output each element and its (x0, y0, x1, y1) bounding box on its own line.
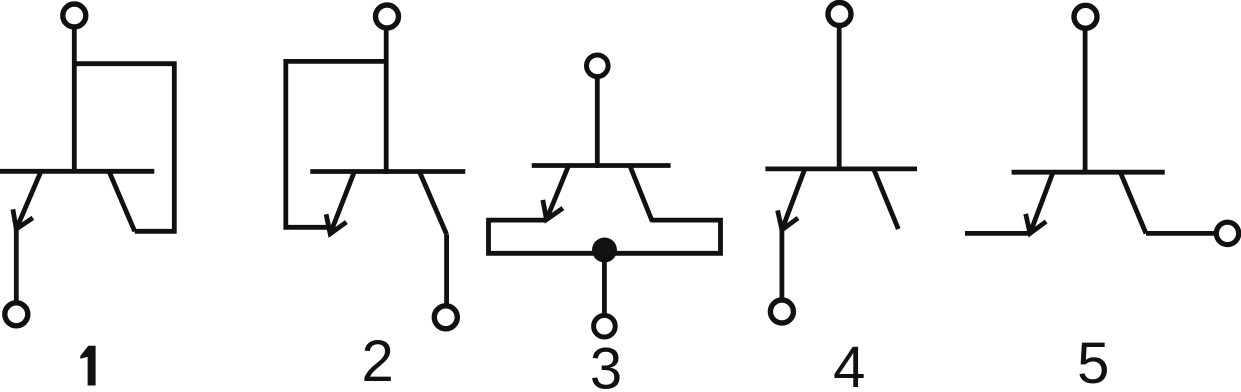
base bar Q1 (0, 169, 154, 174)
svg-text:5: 5 (1077, 331, 1109, 392)
wire, fig1 vertical from top terminal to base (72, 27, 77, 173)
emitter Q4 diagonal (782, 169, 805, 230)
emitter Q2 diagonal (330, 172, 354, 234)
terminal circle, fig1 emitter bottom (5, 303, 28, 326)
terminal circle, fig5 base top (1074, 5, 1097, 28)
emitter Q5 diagonal (1030, 172, 1053, 233)
terminal circle, fig4 base top (828, 3, 851, 26)
wire, fig3 emitter-collector shorting strap (489, 220, 721, 253)
terminal circle, fig4 emitter bottom (770, 300, 793, 323)
terminal circle, fig2 base top (376, 5, 399, 28)
emitter arrowhead Q1 (13, 209, 33, 229)
emitter arrowhead Q5 (1026, 214, 1046, 234)
terminal circle, fig3 base top (587, 55, 609, 77)
svg-text:2: 2 (361, 329, 393, 392)
collector Q4 diagonal, open end (874, 169, 899, 229)
terminal circle, fig1 base/collector top (63, 4, 86, 27)
wire, fig5 collector lead (1146, 231, 1214, 236)
wire, fig5 vertical from top terminal to base (1083, 29, 1088, 175)
base bar Q5 (1012, 170, 1165, 175)
terminal circle, fig5 collector right (1216, 222, 1238, 244)
emitter arrowhead Q4 (778, 210, 798, 230)
collector Q5 diagonal (1120, 172, 1146, 233)
wire, fig3 vertical from top terminal to base (595, 77, 600, 168)
terminal circle, fig2 collector bottom (434, 306, 457, 329)
emitter arrowhead Q3 (543, 200, 563, 220)
wire, fig1 emitter lead (14, 229, 19, 301)
base bar Q2 (310, 169, 465, 174)
base bar Q3 (532, 163, 671, 168)
emitter Q3 diagonal (547, 166, 569, 220)
label 1 (80, 346, 95, 386)
svg-text:3: 3 (590, 337, 622, 392)
collector Q2 diagonal (419, 172, 446, 235)
collector Q3 diagonal (630, 166, 653, 222)
junction dot, fig3 (592, 238, 617, 263)
emitter Q1 diagonal (16, 171, 41, 229)
wire, fig2 vertical from top terminal to base (384, 28, 389, 174)
wire, fig2 base-to-emitter feedback loop (286, 61, 386, 227)
wire, fig1 collector-to-base feedback loop (74, 64, 174, 232)
base bar Q4 (765, 166, 917, 171)
wire, fig5 emitter stub (965, 231, 1030, 236)
wire, fig3 bottom lead (602, 253, 607, 313)
wire, fig2 collector lead (444, 234, 449, 304)
collector Q1 diagonal (109, 171, 135, 231)
wire, fig4 vertical from top terminal to base (837, 26, 842, 171)
svg-text:4: 4 (833, 335, 865, 392)
terminal circle, fig3 bottom (594, 315, 616, 337)
wire, fig4 emitter lead (780, 230, 785, 298)
emitter arrowhead Q2 (326, 214, 346, 234)
